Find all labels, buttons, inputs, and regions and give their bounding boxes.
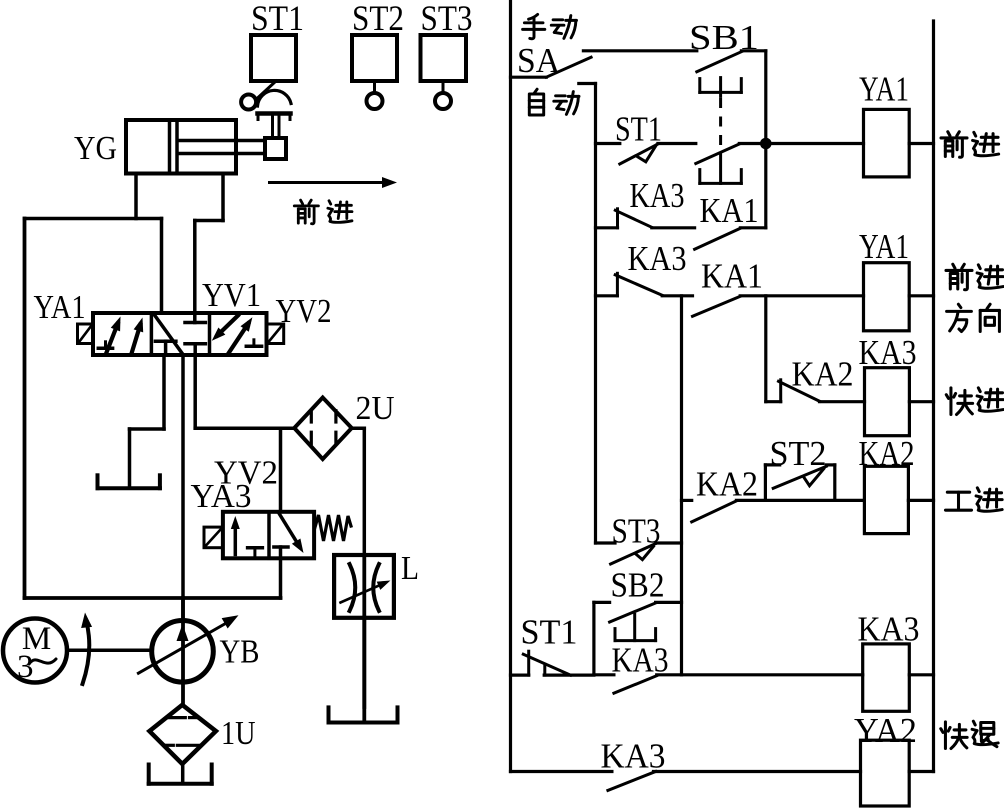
svg-text:ST3: ST3 <box>612 512 661 551</box>
svg-text:2U: 2U <box>356 390 395 427</box>
svg-text:YA1: YA1 <box>859 70 909 109</box>
svg-text:ST1: ST1 <box>521 613 578 652</box>
svg-text:YG: YG <box>74 130 117 167</box>
svg-text:1U: 1U <box>221 715 256 752</box>
svg-text:SB1: SB1 <box>689 18 759 57</box>
svg-text:KA3: KA3 <box>601 737 666 776</box>
svg-text:YA2: YA2 <box>854 711 917 750</box>
svg-text:KA3: KA3 <box>630 176 685 215</box>
svg-text:ST1: ST1 <box>251 0 304 38</box>
svg-text:SB2: SB2 <box>611 566 665 605</box>
svg-text:KA2: KA2 <box>859 434 915 473</box>
svg-text:L: L <box>401 550 419 587</box>
svg-text:YV2: YV2 <box>276 293 332 330</box>
svg-text:KA3: KA3 <box>612 641 669 680</box>
svg-text:ST3: ST3 <box>421 0 473 38</box>
svg-text:KA3: KA3 <box>859 333 917 372</box>
svg-text:YA1: YA1 <box>34 289 86 326</box>
svg-text:KA1: KA1 <box>701 257 763 296</box>
svg-text:ST1: ST1 <box>615 110 662 149</box>
svg-text:KA2: KA2 <box>792 355 854 394</box>
svg-text:SA: SA <box>517 41 561 80</box>
svg-text:YA3: YA3 <box>191 478 252 515</box>
svg-text:YV1: YV1 <box>202 277 261 314</box>
svg-text:KA2: KA2 <box>696 465 758 504</box>
svg-text:KA1: KA1 <box>700 191 759 230</box>
svg-text:YB: YB <box>220 634 260 671</box>
svg-text:3: 3 <box>17 649 34 685</box>
svg-text:ST2: ST2 <box>770 434 827 473</box>
svg-text:YA1: YA1 <box>859 227 909 266</box>
svg-text:KA3: KA3 <box>858 610 920 649</box>
svg-text:KA3: KA3 <box>628 239 687 278</box>
svg-text:ST2: ST2 <box>352 0 404 38</box>
